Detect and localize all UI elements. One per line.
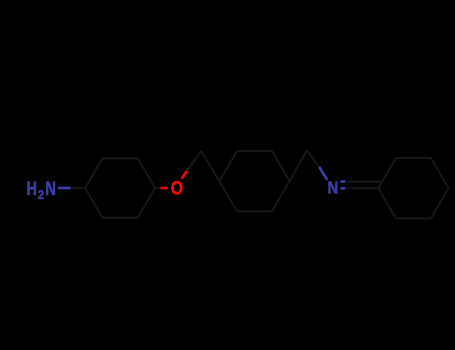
bond C4-O red half: [161, 187, 168, 190]
double bond N=C second line black part: [345, 181, 382, 183]
bond N-C1 blue half: [58, 187, 71, 190]
svg-text:N: N: [328, 178, 339, 198]
double bond N=C main line black part: [345, 187, 378, 189]
bond N-C1 black half: [71, 187, 86, 189]
bond CH2-N black half: [307, 150, 320, 168]
double bond N=C main line blue tip: [341, 187, 346, 190]
bond O-CH2 red half: [182, 171, 188, 179]
bond O-CH2 black half: [187, 151, 202, 171]
svg-text:2: 2: [38, 188, 44, 202]
svg-text:H: H: [27, 179, 37, 200]
svg-text:O: O: [171, 179, 183, 200]
ring 1 cyclohexane: [85, 158, 155, 217]
ring 2 cyclohexane: [219, 151, 289, 211]
svg-text:N: N: [45, 179, 56, 200]
bond ring2-CH2: [290, 150, 308, 181]
double bond N=C second line blue tip: [341, 180, 346, 183]
ring 3 cyclohexylidene: [378, 158, 448, 218]
bond CH2-ring2: [201, 151, 219, 181]
bond C4-O black half: [155, 187, 161, 189]
amine label H2N: [27, 179, 57, 202]
bond CH2-N blue half: [319, 167, 327, 180]
